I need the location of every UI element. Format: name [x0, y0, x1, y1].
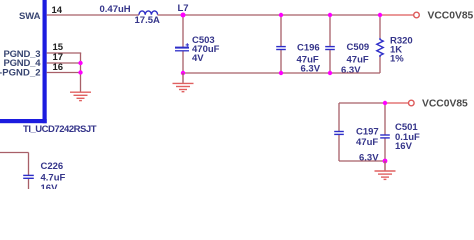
svg-text:C196: C196 [297, 43, 320, 54]
svg-text:VCC0V85: VCC0V85 [422, 99, 468, 110]
wire pgnd vertical [80, 53, 82, 92]
wire pin15 [47, 52, 81, 54]
wire C509 branch [329, 15, 331, 46]
capacitor C501 [380, 135, 390, 138]
wire inductor to VCC terminal [158, 14, 380, 16]
svg-text:0.47uH: 0.47uH [100, 4, 131, 15]
wire pin14 to inductor [47, 14, 139, 16]
svg-text:C197: C197 [356, 126, 379, 137]
junction dot pin17 [78, 61, 82, 65]
wire second rail top [339, 102, 385, 104]
svg-text:6.3V: 6.3V [341, 65, 361, 76]
junction dot ground2 [383, 159, 388, 164]
wire to power symbol [380, 14, 414, 16]
wire R320 branch [379, 15, 381, 38]
wire pin17 [47, 62, 81, 64]
svg-text:SWA: SWA [19, 11, 41, 22]
svg-text:4V: 4V [192, 53, 204, 64]
svg-text:47uF: 47uF [356, 137, 378, 148]
ground at C503 rail [173, 73, 194, 92]
svg-text:-PGND_2: -PGND_2 [0, 68, 41, 79]
power symbol VCC0V85 second [409, 100, 415, 106]
svg-text:VCC0V85: VCC0V85 [428, 11, 474, 22]
wire pin16 [47, 72, 81, 74]
wire C197 branch [338, 103, 340, 131]
wire C501 branch [384, 103, 386, 135]
svg-text:14: 14 [52, 5, 63, 16]
svg-text:TI_UCD7242RSJT: TI_UCD7242RSJT [23, 124, 97, 135]
wire C226 branch [0, 153, 29, 190]
capacitor C509 [325, 47, 335, 50]
power symbol VCC0V85 [414, 12, 420, 18]
svg-text:1%: 1% [390, 54, 404, 65]
inductor L7 [139, 11, 158, 15]
wire bottom rail [183, 72, 380, 74]
ground at PGND [70, 92, 91, 100]
wire to power symbol 2 [385, 102, 409, 104]
junction dots bottom rail [181, 71, 185, 75]
ground at second circuit [375, 161, 396, 179]
wire C196 branch [280, 15, 282, 46]
junction dot VCC2 [383, 101, 387, 105]
svg-text:17.5A: 17.5A [135, 15, 160, 26]
junction dot pin16 [78, 70, 82, 74]
capacitor C197 [334, 132, 344, 135]
svg-text:47uF: 47uF [347, 54, 369, 65]
resistor R320 [377, 38, 383, 57]
junction dots top rail [181, 13, 186, 18]
capacitor C226 [23, 175, 34, 178]
capacitor C503 polarized [175, 43, 189, 51]
svg-text:6.3V: 6.3V [359, 152, 379, 163]
op-amp U1 TI_UCD7242RSJT IC edge [0, 0, 47, 123]
wire second rail bottom [339, 160, 385, 162]
svg-text:16V: 16V [41, 183, 59, 189]
svg-text:4.7uF: 4.7uF [41, 173, 66, 184]
svg-text:16: 16 [53, 62, 64, 73]
svg-text:C509: C509 [347, 42, 370, 53]
capacitor C196 [276, 47, 286, 50]
svg-text:C226: C226 [41, 161, 64, 172]
svg-text:16V: 16V [395, 141, 413, 152]
wire C503 branch [182, 15, 184, 47]
